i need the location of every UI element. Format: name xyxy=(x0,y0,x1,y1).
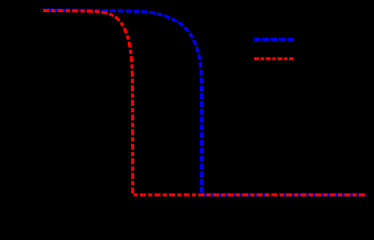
legend sample line red xyxy=(254,57,294,60)
blue curve (series 1: flat top, knee, vertical drop at x~201.5, bottom tail) xyxy=(43,10,367,195)
legend sample line blue xyxy=(254,38,295,41)
red curve (series 2: flat top, knee, vertical drop at x~132.6, bottom tail) xyxy=(43,11,367,195)
